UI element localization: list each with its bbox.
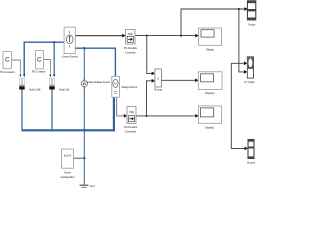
port arrow into Product in1 [152, 72, 155, 76]
port arrow into XY Graph in2 [244, 70, 247, 74]
port arrow into PS-Simulink Converter [122, 34, 125, 38]
svg-text:Converter1: Converter1 [125, 129, 137, 133]
svg-text:Gnd: Gnd [90, 184, 96, 188]
node: junction solver line [83, 157, 85, 159]
port arrow into Scope [244, 7, 247, 11]
wire: drop to Scope1 [231, 63, 245, 148]
svg-text:x: x [157, 77, 159, 81]
block: PS Constant [35, 51, 43, 69]
wire: product in2 riser [147, 81, 153, 116]
wire: riser to Scope [181, 9, 246, 36]
block: PS-Simulink Converter [126, 30, 136, 45]
svg-text:PS Constant: PS Constant [32, 70, 46, 74]
svg-text:Scope1: Scope1 [247, 160, 256, 164]
svg-text:Display2: Display2 [205, 91, 215, 95]
svg-text:C: C [37, 56, 42, 63]
wire: PS Constant to Solar Cell Ir input (gray) [43, 60, 50, 74]
port arrow into PS-Simulink Converter1 [124, 114, 127, 118]
wire: solar cell1 bottom drop [21, 89, 23, 130]
block: Voltage Sensor [112, 76, 120, 97]
wire: solar cell bottom drop [51, 89, 53, 130]
block: Display1 [198, 106, 221, 123]
port arrow into Display1 [195, 114, 198, 118]
svg-text:f(x)=0: f(x)=0 [64, 153, 72, 157]
node: junction top rail to Solar Cell [53, 41, 55, 43]
port arrow into Solar Cell plus [53, 74, 55, 77]
svg-text:C: C [5, 57, 10, 64]
port arrow into Display2 [195, 78, 198, 82]
port arrow into Solar Cell Ir [49, 74, 51, 77]
svg-text:V: V [114, 82, 117, 86]
svg-text:PS(f): PS(f) [128, 32, 133, 36]
block: XY Graph [247, 57, 253, 78]
svg-text:Solar Cell1: Solar Cell1 [29, 87, 41, 91]
wire: converter1 out to Display1 [136, 115, 196, 117]
wire: voltage sensor PS out (gray) to converter1 [117, 97, 123, 116]
ground [80, 185, 89, 188]
block: Current Sensor [64, 27, 75, 53]
wire: XY Graph in1 feed [231, 62, 243, 64]
svg-text:Scope: Scope [248, 22, 256, 26]
wire: current sensor out (blue) to voltage sensor top [75, 48, 115, 76]
block: Product [155, 69, 162, 87]
port arrow into XY Graph in1 [244, 61, 247, 65]
node: junction scope line / xy drop [238, 8, 240, 10]
wire: product out to Display2 [161, 79, 196, 81]
block: Scope [247, 1, 255, 20]
wire: solver configuration port [74, 157, 85, 159]
port arrow into Solar Cell1 Ir [19, 74, 21, 77]
block: Display2 [198, 72, 222, 90]
block: Scope1 [248, 140, 254, 159]
svg-text:Converter: Converter [125, 50, 136, 54]
block: PS Constant1 [3, 52, 11, 69]
port arrow into Product in2 [152, 79, 155, 83]
node: junction to product in1 [146, 35, 148, 37]
port arrow into Display [195, 34, 198, 38]
svg-text:Display: Display [206, 48, 215, 52]
wire: product in1 drop [147, 36, 153, 74]
svg-text:Product: Product [154, 88, 163, 92]
svg-text:Configuration: Configuration [60, 175, 75, 179]
wire: converter out to Display (black) [135, 35, 196, 37]
port arrow into Solar Cell1 plus [23, 74, 25, 77]
component: Solar Cell [49, 78, 55, 89]
svg-text:Current Sensor: Current Sensor [62, 55, 78, 59]
component: Solar Cell1 [19, 78, 25, 89]
node: junction to product in2 [145, 115, 147, 117]
wire: Solar Cell branch down (blue) [53, 42, 55, 76]
node: junction bus / solar cell [51, 129, 53, 131]
node: junction pulse source top [83, 47, 86, 50]
node: junction bus / pulse-ground column [83, 129, 86, 132]
block: Solver Configuration [62, 149, 74, 168]
svg-text:Voltage Sensor: Voltage Sensor [121, 85, 137, 89]
svg-text:Display1: Display1 [205, 125, 215, 129]
wire: pulse voltage source stem top [83, 48, 85, 80]
svg-text:XY Graph: XY Graph [244, 80, 255, 84]
svg-text:Pulse Voltage Source: Pulse Voltage Source [87, 80, 110, 84]
wire: PS Constant1 to Solar Cell1 Ir input (gray) [11, 60, 20, 74]
wire: electrical top rail (blue) solar cells to current sensor [24, 42, 64, 76]
block: PS-Simulink Converter1 [127, 107, 136, 124]
svg-text:PS(f): PS(f) [129, 110, 134, 114]
wire: current sensor PS out (maroon) to converter [75, 35, 123, 37]
wire: pulse voltage source stem bottom to ground [83, 87, 85, 185]
component: Pulse Voltage Source [81, 79, 87, 88]
svg-text:PS Constant1: PS Constant1 [0, 70, 15, 74]
block: Display [199, 28, 222, 45]
port arrow into Scope1 [245, 147, 248, 151]
node: junction to scope riser [180, 35, 182, 37]
wire: drop to XY Graph in2 [239, 9, 244, 72]
wire: bottom bus (blue, thick) [21, 97, 114, 130]
svg-text:Solar Cell: Solar Cell [59, 87, 70, 91]
